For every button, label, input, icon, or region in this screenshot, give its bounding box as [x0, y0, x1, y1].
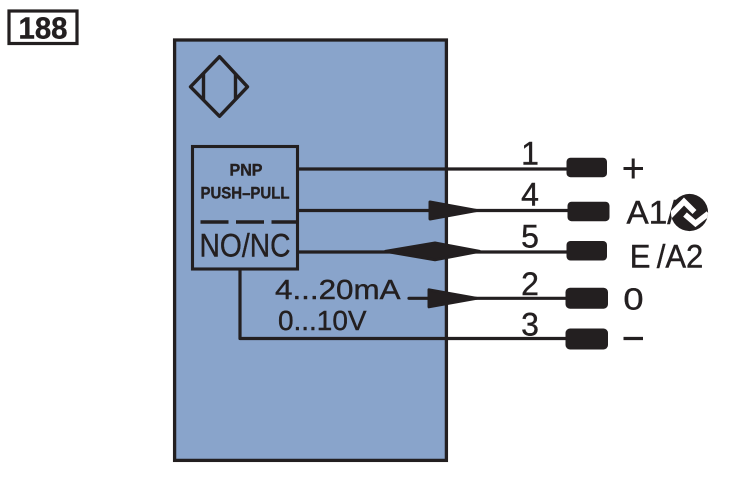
double arrow on wire 5	[386, 243, 480, 260]
svg-text:3: 3	[521, 307, 539, 343]
label plus	[624, 159, 644, 179]
svg-text:PUSH–PULL: PUSH–PULL	[201, 184, 290, 203]
terminal pin3	[566, 329, 609, 350]
terminal pin1	[567, 158, 608, 178]
sensor symbol (diamond)	[191, 57, 248, 117]
svg-text:4...20mA: 4...20mA	[275, 274, 401, 305]
terminal pin5	[567, 241, 608, 261]
svg-text:2: 2	[521, 266, 539, 302]
svg-text:1: 1	[521, 135, 539, 171]
label minus	[624, 337, 644, 340]
svg-text:E /A2: E /A2	[630, 238, 704, 274]
IO-Link icon	[670, 194, 709, 231]
figure number box 188	[9, 11, 77, 46]
wire pin5	[298, 250, 570, 253]
svg-text:0: 0	[623, 282, 643, 317]
wire pin3	[240, 269, 570, 339]
arrow on wire 4	[430, 202, 477, 219]
output stage box (PNP / NO-NC)	[193, 147, 298, 270]
wire pin4	[298, 209, 570, 212]
svg-text:0...10V: 0...10V	[278, 305, 367, 336]
svg-text:4: 4	[521, 177, 539, 213]
svg-text:188: 188	[19, 11, 68, 46]
svg-text:PNP: PNP	[230, 162, 263, 180]
wire pin1	[298, 167, 570, 170]
terminal pin2	[566, 288, 609, 309]
svg-text:A1/: A1/	[627, 195, 677, 231]
sensor body	[175, 40, 447, 460]
svg-text:5: 5	[521, 218, 539, 254]
wire pin2	[409, 297, 570, 300]
label 0 (output)	[623, 282, 643, 317]
arrow on wire 2	[429, 290, 477, 307]
dashed divider	[201, 220, 299, 223]
terminal pin4	[568, 202, 610, 222]
svg-text:NO/NC: NO/NC	[200, 228, 291, 264]
